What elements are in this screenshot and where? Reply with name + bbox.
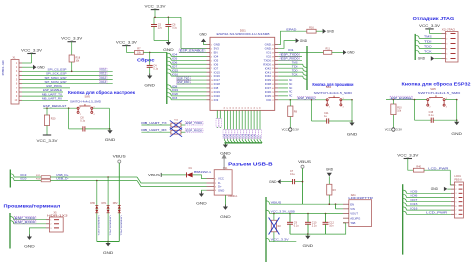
wire IO1 to R11 <box>278 51 323 53</box>
svg-text:3: 3 <box>50 228 51 230</box>
svg-text:IO6: IO6 <box>410 194 418 198</box>
wire to C6 <box>167 17 169 24</box>
junction SW4 right <box>351 99 353 101</box>
wire ESP_RXD0 (DD1) <box>278 59 302 61</box>
svg-text:IO5: IO5 <box>410 190 418 194</box>
svg-text:DH0: DH0 <box>90 202 95 205</box>
svg-text:6: 6 <box>455 206 456 208</box>
capacitor C12 <box>323 222 335 228</box>
svg-text:USB_D-: USB_D- <box>56 177 69 181</box>
svg-text:GND: GND <box>103 251 114 255</box>
net label ESP_RXD0 (X5) <box>14 220 36 224</box>
wire USB_D- to D+ <box>137 181 207 187</box>
ground GND (JTAG) <box>418 56 434 61</box>
wire USB_D- <box>50 180 137 182</box>
bus entry ESP_RXD0 <box>10 221 14 224</box>
junction GND leg <box>109 128 111 130</box>
wire GND to R3 <box>328 176 330 184</box>
junction C8 branch <box>68 107 70 109</box>
wire stem <box>307 234 309 236</box>
wire IO20 <box>14 180 41 182</box>
svg-text:ADJ/PG: ADJ/PG <box>350 216 360 220</box>
svg-text:PBD-10: PBD-10 <box>1 60 5 76</box>
bus entry VCC_3.3V_USB <box>266 210 270 213</box>
wire stem <box>107 242 109 244</box>
junction C7/VBUS <box>302 181 304 183</box>
wire to gnd <box>108 129 111 130</box>
bus entry VCC_3.3V <box>266 238 270 241</box>
svg-text:NC: NC <box>289 92 293 94</box>
svg-text:SPI_MISO_ESP: SPI_MISO_ESP <box>45 76 67 80</box>
wire TDI <box>278 67 303 69</box>
svg-text:3: 3 <box>455 193 456 195</box>
net label ESP_RXD0 (DD1) <box>280 57 300 61</box>
svg-text:ESP32-S3-WROOM-1U-N16R8: ESP32-S3-WROOM-1U-N16R8 <box>217 32 270 36</box>
svg-text:SW6: SW6 <box>430 88 436 91</box>
wire TDI (JTAG) <box>419 43 441 45</box>
svg-text:IO19: IO19 <box>172 89 179 92</box>
wire ESP_DEFAULT <box>43 107 78 109</box>
svg-text:SPI_SCK_ESP: SPI_SCK_ESP <box>46 72 67 76</box>
bus LCD <box>402 184 404 254</box>
svg-text:ESP_ENABLE: ESP_ENABLE <box>43 88 62 92</box>
wire TDO (JTAG) <box>419 48 441 50</box>
svg-text:37: 37 <box>227 107 229 109</box>
resistor R8 <box>288 106 293 117</box>
net label IO12 <box>100 76 108 79</box>
wire VOUT row <box>270 213 344 215</box>
wire NC stub <box>278 95 288 97</box>
wire DH1 column <box>107 177 109 242</box>
wire right leg <box>108 108 110 129</box>
svg-text:ESP_RXD0: ESP_RXD0 <box>281 57 299 61</box>
bus entry TMS <box>303 64 307 67</box>
wire shield stub <box>224 195 226 206</box>
wire C11 to right leg <box>329 120 352 122</box>
wire VCC to R18 <box>71 42 73 55</box>
wire 3V3 rail <box>154 16 181 18</box>
bus entry IO19 <box>10 174 14 177</box>
wire C15 to right leg <box>433 119 457 121</box>
wire IO19 <box>171 91 206 93</box>
bus JTAG <box>414 34 416 60</box>
capacitor C10 <box>305 222 317 228</box>
wire gnd stem <box>224 143 226 145</box>
svg-text:ESP_TXD0: ESP_TXD0 <box>186 121 202 125</box>
bus entry IO16 <box>167 73 171 76</box>
svg-text:4: 4 <box>455 197 456 199</box>
bus entry IO19 <box>167 89 171 92</box>
wire VCC down <box>154 10 156 18</box>
wire VBUS row <box>270 203 344 205</box>
svg-text:TMS: TMS <box>292 61 298 65</box>
bus entry TCK (JTAG) <box>415 50 419 53</box>
svg-text:VBUS: VBUS <box>298 160 311 164</box>
power VCC_3.3V (R20) <box>43 134 51 136</box>
svg-text:IO6: IO6 <box>172 62 178 65</box>
wire DH gnd rail <box>97 241 120 243</box>
svg-text:5: 5 <box>446 53 447 55</box>
wire NC stub <box>278 91 288 93</box>
wire R10 to VCC <box>392 115 394 128</box>
wire SW4 right <box>342 99 352 101</box>
connector XS1 USB-B <box>214 167 238 198</box>
svg-text:USB0505-RCL: USB0505-RCL <box>108 216 110 237</box>
svg-text:SWITCH 4x4x1.5_SMD: SWITCH 4x4x1.5_SMD <box>70 101 101 104</box>
wire VBUS to EN row <box>302 168 304 204</box>
DD1 right pins <box>263 43 278 102</box>
ground GND (DD1 bottom) <box>220 143 231 156</box>
svg-text:GND: GND <box>105 138 116 142</box>
wire SPI_CS_ESP <box>22 70 113 72</box>
power VCC_3.3V (JTAG) <box>419 24 441 29</box>
ground GND (LCD1) <box>431 187 448 192</box>
svg-text:TMS: TMS <box>424 35 432 39</box>
wire VCC to JTAG pin1 <box>429 29 431 34</box>
svg-text:GND: GND <box>326 168 334 172</box>
bus bottom rail <box>224 142 262 144</box>
svg-text:TDI: TDI <box>292 65 298 69</box>
DD1 left pins <box>207 43 221 102</box>
wire C10 down <box>307 224 309 234</box>
power VBUS (D1) <box>148 173 161 177</box>
svg-text:GND: GND <box>220 152 231 156</box>
svg-text:MB_UART_RX: MB_UART_RX <box>141 128 166 132</box>
wire IO7 (LCD) <box>406 201 451 203</box>
bus entry TDI <box>303 68 307 71</box>
svg-text:TDI: TDI <box>424 40 432 44</box>
svg-text:0.1u: 0.1u <box>290 173 295 176</box>
bus entry IO8 <box>167 85 171 88</box>
wire MB_UART_RX <box>141 131 171 133</box>
junction C15 left <box>414 99 416 101</box>
switch SW5 <box>77 104 95 116</box>
bus entry TCK <box>303 76 307 79</box>
IC DA1 LDF33PTTR <box>348 193 373 227</box>
net label ESP_TXD0 (X5) <box>14 216 36 220</box>
wire IO4 <box>171 55 206 57</box>
svg-text:ESP_TXD: ESP_TXD <box>177 76 189 80</box>
svg-text:33: 33 <box>233 107 235 109</box>
net label ESP_RXD <box>177 80 191 84</box>
TVS diode DH1 <box>107 206 110 213</box>
power VBUS (C7) <box>298 160 311 168</box>
connector X1 PBD-10 <box>1 56 19 104</box>
svg-text:ESP_PROG: ESP_PROG <box>298 96 315 100</box>
svg-text:IO16: IO16 <box>410 206 418 210</box>
bus entry IO20 <box>167 93 171 96</box>
svg-text:USB_D+: USB_D+ <box>56 173 69 177</box>
svg-text:GND: GND <box>24 244 35 248</box>
shield arrow <box>222 154 227 170</box>
ground GND (R11) <box>343 50 355 55</box>
bus entry VBUS <box>266 201 270 204</box>
bus entry IO20 <box>10 177 14 180</box>
wire SPI_MOSI_ESP <box>22 83 113 85</box>
bus entry TDO (JTAG) <box>415 45 419 48</box>
junction VOUT row <box>289 213 291 215</box>
svg-text:VCC_3.3V: VCC_3.3V <box>419 24 441 28</box>
svg-text:VCC: VCC <box>282 128 288 132</box>
wire ESP_TXD <box>177 79 207 81</box>
svg-text:3.3V: 3.3V <box>293 128 299 132</box>
svg-text:1: 1 <box>50 220 51 222</box>
svg-text:2: 2 <box>446 38 447 40</box>
net label IO10 <box>100 68 108 71</box>
svg-text:ESP_RXD0: ESP_RXD0 <box>15 220 36 224</box>
DNP cross R2 <box>269 218 280 235</box>
ground GND (DD1 pin40) <box>296 38 308 43</box>
wire LCD_PWR <box>424 169 450 171</box>
svg-text:VBUS: VBUS <box>148 173 160 177</box>
svg-text:GND: GND <box>37 65 45 69</box>
svg-text:VCC_3.3V: VCC_3.3V <box>145 4 167 8</box>
LCD1 pins <box>451 185 463 216</box>
wire to R8 <box>289 100 291 106</box>
connector LCD1 PBS-8 <box>454 175 463 218</box>
svg-text:USB04-1: USB04-1 <box>228 196 238 198</box>
resistor R15 (DNP) <box>171 130 181 134</box>
svg-text:0.1u: 0.1u <box>80 120 85 123</box>
net label ESP_TXD0 (DD1) <box>280 53 300 57</box>
wire SPI_MISO_ESP <box>22 79 113 81</box>
ground GND (SW6) <box>451 120 462 136</box>
ground GND (XS1) <box>196 192 207 206</box>
bus entry IO6 <box>167 61 171 64</box>
svg-text:GND: GND <box>163 48 174 52</box>
svg-text:4: 4 <box>446 48 447 50</box>
junction R20 top <box>46 107 48 109</box>
svg-text:VCC_3.3V: VCC_3.3V <box>37 139 59 143</box>
net label ESP_ENABLE (SW6) <box>390 96 413 100</box>
svg-text:Сброс: Сброс <box>137 57 155 62</box>
svg-text:USB0505-RCL: USB0505-RCL <box>97 216 99 237</box>
wire 3V3 riser <box>180 17 182 48</box>
svg-text:36: 36 <box>236 107 238 109</box>
svg-text:TCK: TCK <box>424 50 432 54</box>
wire GND (JTAG) <box>434 58 441 60</box>
wire cap gnd rail <box>290 223 346 234</box>
wire IO6 <box>171 63 206 65</box>
ground GND (DH) <box>103 241 114 255</box>
svg-text:34: 34 <box>224 107 226 109</box>
svg-text:37: 37 <box>257 107 259 109</box>
wire MB_UART_RX <box>22 99 68 101</box>
bus entry IO5 (LCD) <box>403 190 407 193</box>
svg-text:Кнопка для сброса ESP32: Кнопка для сброса ESP32 <box>402 81 472 86</box>
bus entry LCD_PWR (LCD) <box>403 211 407 214</box>
svg-text:GND: GND <box>269 180 277 184</box>
net label IO13 <box>100 81 108 84</box>
junction VOUT row <box>273 213 275 215</box>
svg-text:IO11: IO11 <box>100 73 106 76</box>
wire to C15 <box>415 119 432 121</box>
junction R3/EN <box>329 203 331 205</box>
svg-text:VCC_3.3V: VCC_3.3V <box>21 49 43 53</box>
svg-text:DH1: DH1 <box>102 202 107 205</box>
wire left leg <box>68 108 70 129</box>
svg-text:Прошивка/терминал: Прошивка/терминал <box>4 204 61 209</box>
svg-text:GND: GND <box>199 33 207 37</box>
ground GND (R16) <box>323 29 335 34</box>
svg-text:VCC_3.3V: VCC_3.3V <box>61 36 83 40</box>
wire <box>181 131 185 133</box>
bus entry ESP_TXD0 <box>10 217 14 220</box>
svg-text:VIN: VIN <box>350 207 355 211</box>
svg-text:GND: GND <box>218 188 224 192</box>
svg-text:SWITCH-4x4x1.5_SMD: SWITCH-4x4x1.5_SMD <box>418 92 461 95</box>
bus entry IO15 <box>167 69 171 72</box>
TVS diode DH0 <box>95 206 98 213</box>
wire SW6 right <box>445 99 457 101</box>
svg-text:3.3V: 3.3V <box>396 128 402 132</box>
ground GND (R3) <box>326 168 334 177</box>
svg-text:32: 32 <box>242 107 244 109</box>
svg-text:ESP_PROG: ESP_PROG <box>47 84 63 88</box>
capacitor C6 <box>165 24 177 30</box>
wire IO6 (LCD) <box>406 197 451 199</box>
svg-text:IO3: IO3 <box>214 98 219 102</box>
wire C9 down <box>289 224 291 234</box>
bus USB left <box>9 170 11 188</box>
svg-text:GND: GND <box>144 84 155 88</box>
svg-text:NC: NC <box>289 84 293 86</box>
X2 pins <box>442 33 456 60</box>
svg-text:IO20: IO20 <box>20 177 27 181</box>
svg-text:B5819W-1: B5819W-1 <box>194 170 212 174</box>
wire IO16 (LCD) <box>406 209 451 211</box>
junction C6 <box>168 17 170 19</box>
svg-text:GND: GND <box>220 215 231 219</box>
net label ESP_TXD0 (mid) <box>185 121 203 125</box>
bus entry IO7 <box>167 65 171 68</box>
resistor R2 (DNP) <box>271 220 276 232</box>
junction DH gnd <box>107 241 109 243</box>
capacitor C15 <box>429 111 434 123</box>
power VCC_3.3V (R18) <box>61 36 83 41</box>
svg-text:R20: R20 <box>51 118 56 121</box>
ground GND (SW5) <box>105 128 116 142</box>
wire <box>181 124 185 126</box>
wire to C4 <box>149 52 151 65</box>
DD1 bottom pin wires <box>224 110 262 142</box>
wire to C7 <box>281 181 293 183</box>
svg-text:IO15: IO15 <box>172 69 179 72</box>
wire to R7 <box>126 51 134 53</box>
power VBUS (left) <box>113 154 126 163</box>
wire DH0 column <box>96 181 98 242</box>
wire VBUS riser <box>118 163 120 242</box>
svg-text:IO15: IO15 <box>410 202 418 206</box>
svg-text:GND: GND <box>431 187 439 191</box>
bus entry IO3 <box>167 97 171 100</box>
wire IO15 <box>171 71 206 73</box>
wire gnd rail <box>154 40 168 42</box>
svg-text:GND: GND <box>347 133 358 137</box>
resistor R11 <box>324 48 332 55</box>
svg-text:IO10: IO10 <box>100 69 106 72</box>
svg-text:DH2: DH2 <box>113 202 118 205</box>
svg-text:3: 3 <box>446 43 447 45</box>
power VCC_3.3V (LCD) <box>397 153 419 158</box>
X5 pins <box>46 220 59 230</box>
svg-text:38: 38 <box>248 107 250 109</box>
wire SW5 to GND branch <box>93 107 110 109</box>
net label ESP_PROG <box>297 96 316 100</box>
svg-text:30: 30 <box>230 107 232 109</box>
svg-text:VOUT: VOUT <box>350 212 358 216</box>
svg-text:SW5: SW5 <box>85 96 91 99</box>
svg-text:0.1u: 0.1u <box>153 68 158 71</box>
svg-text:ESP_RXD: ESP_RXD <box>177 80 189 84</box>
wire left leg SW4 <box>311 100 313 121</box>
wire USB_D+ to D- <box>137 177 207 183</box>
bus USB section <box>265 197 267 262</box>
svg-text:Отладчик JTAG: Отладчик JTAG <box>413 16 455 21</box>
resistor R16 <box>307 26 316 33</box>
svg-text:Кнопка для прошивки: Кнопка для прошивки <box>312 82 353 87</box>
DNP cross R14 <box>170 120 182 129</box>
wire EN <box>179 51 207 53</box>
capacitor C5 <box>151 24 163 30</box>
wire to C5 <box>153 17 155 24</box>
power VCC_3.3V (R10) <box>385 128 402 132</box>
svg-text:SPI_MOSI_ESP: SPI_MOSI_ESP <box>45 80 67 84</box>
junction VOUT row <box>307 213 309 215</box>
wire R20 to VCC <box>46 126 48 136</box>
wire EN-VIN tie <box>335 204 337 209</box>
wire R11 to GND <box>332 51 343 53</box>
svg-text:0.1u: 0.1u <box>429 114 434 117</box>
svg-text:1: 1 <box>455 185 456 187</box>
junction DH0 <box>96 180 98 182</box>
svg-text:TAB: TAB <box>350 221 355 225</box>
net label IO11 <box>100 72 108 75</box>
wire ESP_DEFAULT to R20 <box>46 108 48 115</box>
svg-text:Кнопка для сброса настроек: Кнопка для сброса настроек <box>68 90 136 95</box>
power VCC_3.3V (R7) <box>116 40 138 45</box>
wire X1 pin1 <box>22 62 32 64</box>
wire C6 down <box>167 26 169 40</box>
svg-text:IO8: IO8 <box>172 85 178 88</box>
svg-text:IO16: IO16 <box>172 73 179 76</box>
wire stem <box>456 120 458 122</box>
wire DD1 GND pin <box>204 42 207 45</box>
svg-text:GND: GND <box>300 39 308 43</box>
diode D1 <box>187 172 193 177</box>
wire to C9 <box>289 214 291 223</box>
wire C8 to GND <box>85 128 110 130</box>
capacitor C8 <box>80 117 85 132</box>
svg-text:ESP_ENABLE: ESP_ENABLE <box>180 49 204 53</box>
bus entry IO15 (LCD) <box>403 203 407 206</box>
ground GND (LDO caps) <box>303 234 314 248</box>
wire MB_UART_TX <box>141 124 171 126</box>
svg-text:IO0: IO0 <box>266 98 271 102</box>
resistor R13 <box>41 179 50 182</box>
capacitor C4 <box>147 65 159 71</box>
DD1 bottom pin labels <box>223 130 262 139</box>
wire to C10 <box>307 214 309 223</box>
svg-text:2: 2 <box>455 189 456 191</box>
svg-text:LDF33PTTR: LDF33PTTR <box>348 196 373 200</box>
wire X5 GND <box>29 228 46 237</box>
capacitor C7 <box>290 170 295 184</box>
svg-text:GND: GND <box>327 29 335 33</box>
wire TDO <box>278 71 303 73</box>
wire 3V3 <box>181 48 207 50</box>
svg-text:TCK: TCK <box>292 72 298 76</box>
